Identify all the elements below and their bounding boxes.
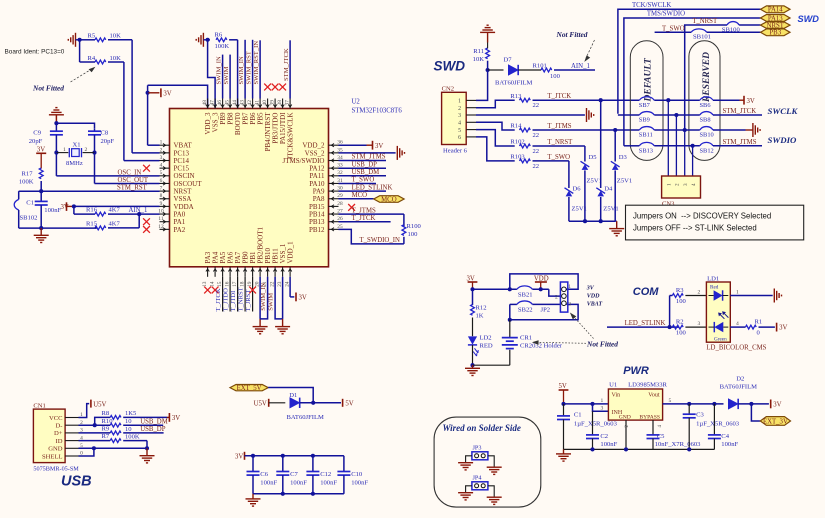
- svg-text:STM_RST: STM_RST: [117, 185, 148, 192]
- resistor R7: [102, 433, 140, 442]
- wire USB_DP (CN1): [123, 432, 163, 434]
- wire R8 to 3V: [123, 416, 169, 418]
- svg-text:7: 7: [160, 186, 163, 192]
- wire U1 Vout row: [663, 398, 724, 404]
- svg-text:JP4: JP4: [473, 475, 482, 482]
- wire SB6 to 3V: [713, 99, 744, 101]
- ground (left of R6): [196, 33, 207, 47]
- wire CN2 pin3 to ground: [476, 114, 585, 116]
- no-connect X pin13 PA3: [204, 287, 211, 294]
- ground (decoupling): [246, 494, 261, 506]
- zener D6 Z5V1: [565, 186, 587, 213]
- LED LD2 RED: [468, 335, 493, 356]
- wire CN3 pin4 drop: [692, 146, 694, 176]
- svg-text:2: 2: [85, 147, 88, 153]
- svg-text:TCK/SWCLK: TCK/SWCLK: [632, 2, 671, 9]
- svg-text:VCC: VCC: [49, 415, 63, 422]
- label AIN_1 (R101): [571, 63, 590, 70]
- wire T_JTMS (pin27) to R100: [339, 214, 404, 226]
- svg-text:2: 2: [675, 183, 681, 186]
- label SWIM_IN (pin46): [216, 56, 223, 84]
- resistor R1: [746, 319, 763, 337]
- svg-text:LD_BICOLOR_CMS: LD_BICOLOR_CMS: [706, 344, 766, 351]
- wire T_JRST (bottom): [252, 277, 254, 312]
- node R8 tap: [93, 423, 97, 427]
- pin 5 OSCIN (U2 left): [160, 170, 195, 180]
- svg-text:R17: R17: [22, 170, 34, 177]
- node AIN_1: [137, 212, 141, 216]
- node R11/D7/CN2 pin1: [486, 68, 490, 72]
- wire decoupling top row: [245, 454, 344, 458]
- pin 6 OSCOUT (U2 left): [160, 178, 203, 188]
- svg-text:4: 4: [458, 121, 461, 127]
- label STM_JTMS (row4): [723, 139, 757, 146]
- node C3 tap: [687, 402, 691, 406]
- svg-text:T_SWO: T_SWO: [547, 154, 570, 161]
- pin 2 D- (CN1): [56, 420, 84, 430]
- svg-text:38: 38: [277, 100, 283, 106]
- svg-text:Z5V1: Z5V1: [587, 177, 602, 184]
- pin 5 GND (CN1): [48, 443, 83, 453]
- wire row SB13 to SB12: [654, 145, 700, 147]
- wire battery bottom row: [473, 350, 510, 365]
- svg-text:44: 44: [232, 100, 238, 106]
- svg-text:100nF: 100nF: [721, 441, 738, 448]
- svg-text:100nF: 100nF: [290, 479, 307, 486]
- power 3V (VBAT): [146, 88, 172, 97]
- wire 3V rail down to R12: [472, 289, 474, 305]
- svg-text:22: 22: [533, 102, 540, 109]
- svg-text:8MHz: 8MHz: [66, 160, 83, 167]
- node zener gnd row 2: [599, 219, 603, 223]
- svg-text:Header 6: Header 6: [443, 148, 468, 155]
- capacitor C3: [683, 404, 740, 450]
- resistor R2: [672, 319, 686, 337]
- wire R2 to LD1 pin3: [685, 321, 706, 327]
- wire USB_DM (CN1): [123, 424, 163, 426]
- resistor R10: [102, 418, 133, 427]
- node 5V rail: [561, 402, 565, 406]
- port EXT_5V: [230, 385, 268, 393]
- svg-text:20pF: 20pF: [101, 138, 115, 145]
- wire T_SWO down to D6: [568, 161, 570, 188]
- pin 1 VCC (CN1): [49, 412, 83, 422]
- node CN3 tap 1: [666, 98, 670, 102]
- wire C3/C4 ground row: [653, 447, 714, 451]
- title SWD (right): [798, 14, 820, 24]
- capacitor C1 100nF: [26, 191, 61, 228]
- svg-text:SB101: SB101: [693, 33, 711, 40]
- svg-text:1: 1: [63, 147, 66, 153]
- wire MCO (pin29): [339, 198, 374, 200]
- resistor R14: [510, 123, 539, 139]
- pin 34 JTMS/SWDIO (U2 right): [282, 155, 343, 165]
- wire R8 jog: [95, 417, 111, 425]
- svg-text:5: 5: [160, 170, 163, 176]
- power 3V (R8): [169, 413, 180, 422]
- wire R1 to 3V: [759, 326, 775, 328]
- svg-text:R13: R13: [510, 93, 522, 100]
- ground above crystal: [49, 108, 64, 124]
- pin 19 PB1 (U2 bottom): [247, 251, 257, 287]
- wire battery loop to JP2 pin3: [510, 304, 578, 319]
- resistor R4: [88, 55, 122, 64]
- capacitor C7 100nF: [276, 456, 307, 494]
- wire SB101 to PB3 port: [707, 31, 761, 33]
- svg-text:DEFAULT: DEFAULT: [643, 57, 653, 102]
- wire CN3 pin3 drop: [684, 130, 686, 176]
- label JP2 VBAT: [587, 301, 603, 307]
- pin 3 PC14 (U2 left): [160, 155, 190, 165]
- svg-text:R5: R5: [88, 33, 96, 40]
- label TMS/SWDIO: [647, 10, 685, 17]
- svg-text:48: 48: [202, 100, 208, 106]
- no-connect X pin11 PA1: [143, 218, 150, 225]
- svg-text:PB3: PB3: [769, 30, 781, 37]
- svg-text:CN1: CN1: [33, 402, 45, 409]
- pin 27 PB14 (U2 right): [309, 208, 343, 218]
- pin 18 PB0 (U2 bottom): [239, 251, 249, 287]
- wire LED_STLINK (COM): [607, 326, 679, 328]
- svg-text:1µF_X5R_0603: 1µF_X5R_0603: [696, 421, 740, 428]
- svg-text:16: 16: [224, 281, 230, 287]
- wire SB22 to JP2 pin3: [532, 303, 561, 305]
- svg-text:3V: 3V: [172, 415, 180, 422]
- connector CN2 Header 6: [442, 86, 468, 155]
- node CN3 tap 3: [683, 128, 687, 132]
- svg-text:STM_JTCK: STM_JTCK: [283, 48, 290, 81]
- svg-text:U5V: U5V: [254, 400, 267, 407]
- wire VDD_1 (pin24) to 3V: [290, 277, 294, 297]
- pin 0 SHELL (CN1): [42, 451, 83, 461]
- svg-text:100nF: 100nF: [44, 207, 61, 214]
- pin 40 PB4/JNTRST (U2 top): [262, 99, 272, 152]
- resistor R11: [473, 43, 490, 64]
- svg-text:T_JTCK: T_JTCK: [215, 288, 222, 311]
- wire TCK/SWCLK to PA14: [618, 9, 761, 114]
- wire T_JTDI (bottom): [237, 277, 239, 312]
- svg-text:R102: R102: [510, 139, 524, 146]
- svg-text:R100: R100: [407, 223, 422, 230]
- wire 3V to VDDA pin9: [74, 205, 160, 207]
- node R3/R2 split: [668, 325, 672, 329]
- svg-text:SWIM_RST_IN: SWIM_RST_IN: [253, 41, 260, 85]
- node CN1 gnd: [145, 446, 149, 450]
- svg-text:1K: 1K: [476, 312, 484, 319]
- wire VDD_2 to 3V: [339, 144, 367, 146]
- svg-text:22: 22: [533, 148, 540, 155]
- title PWR: [623, 365, 649, 377]
- label TCK/SWCLK: [632, 2, 671, 9]
- svg-text:C4: C4: [721, 433, 729, 440]
- svg-text:PA14: PA14: [768, 7, 783, 14]
- svg-text:22: 22: [533, 132, 540, 139]
- svg-text:8: 8: [160, 193, 163, 199]
- capacitor C2: [586, 411, 618, 449]
- wire 3V to VDD_3 (pin48): [148, 85, 208, 108]
- wire T_SWO (pin31): [339, 183, 377, 185]
- ground above R11 (inverted): [480, 25, 495, 42]
- svg-text:USB_DP: USB_DP: [352, 161, 378, 168]
- svg-text:9: 9: [160, 201, 163, 207]
- node R5/R4 left junction: [78, 38, 82, 42]
- wire T_SWO row: [533, 160, 569, 162]
- wire SB12 to SWDIO: [713, 145, 762, 147]
- wire R11 to D7 row: [487, 61, 489, 70]
- title USB: [61, 474, 92, 490]
- label USB_DP (CN1): [140, 426, 166, 433]
- svg-text:D-: D-: [56, 423, 63, 430]
- svg-text:R14: R14: [510, 123, 522, 130]
- svg-text:U5V: U5V: [93, 401, 106, 408]
- pin 31 PA10 (U2 right): [309, 178, 343, 188]
- svg-text:JTCK&SWCLK: JTCK&SWCLK: [287, 113, 295, 160]
- svg-text:T_JTDI: T_JTDI: [230, 291, 237, 312]
- svg-text:R10: R10: [102, 418, 114, 425]
- ground (JP3 right): [487, 467, 502, 474]
- power 3V (PWR out): [771, 400, 782, 409]
- note box jumpers: [626, 205, 804, 240]
- port EXT_3V: [760, 417, 790, 426]
- port MCO: [374, 196, 404, 204]
- svg-text:U1: U1: [609, 382, 617, 389]
- svg-text:LD1: LD1: [707, 275, 719, 282]
- wire R3 to LD1 pin2: [685, 290, 706, 296]
- pin 4 (CN2): [458, 121, 476, 127]
- pin 29 PA8 (U2 right): [313, 193, 343, 203]
- pin 30 PA9 (U2 right): [313, 186, 343, 196]
- svg-text:C1: C1: [26, 200, 34, 207]
- svg-text:SWD: SWD: [798, 14, 820, 24]
- zener D5 Z5V1: [581, 154, 602, 184]
- wire zener ground row: [585, 220, 615, 222]
- wire OSC_OUT to pin6: [95, 153, 160, 184]
- power 3V (VDD_2): [367, 141, 384, 150]
- svg-text:T_SWO: T_SWO: [352, 177, 375, 184]
- wire U1 GND pin to ground row: [625, 420, 627, 449]
- svg-text:3: 3: [698, 321, 701, 327]
- wire CN2 pin4 to R14: [476, 122, 515, 130]
- svg-text:14: 14: [209, 281, 215, 287]
- svg-text:100: 100: [408, 231, 419, 238]
- svg-text:BAT60JFILM: BAT60JFILM: [287, 414, 325, 421]
- pin 1 (CN2): [458, 99, 476, 105]
- pin 47 VSS_3 (U2 top): [209, 99, 219, 133]
- resistor R102: [510, 139, 539, 155]
- svg-text:T_NRST: T_NRST: [238, 287, 245, 311]
- label T_SWDIO_IN: [360, 237, 400, 244]
- svg-text:6: 6: [160, 178, 163, 184]
- port PA14: [761, 6, 791, 14]
- diode D2 BAT60JFILM: [720, 376, 758, 409]
- ground (CN2 pin3): [587, 108, 594, 122]
- wire CN2 pin6 to R103: [476, 137, 515, 161]
- label OSC_IN: [118, 169, 142, 176]
- wire SWIM (pin21): [260, 277, 268, 319]
- text Not Fitted (R4): [32, 67, 95, 93]
- node battery top: [508, 318, 512, 322]
- svg-text:MCO: MCO: [352, 192, 368, 199]
- svg-text:Vin: Vin: [612, 393, 621, 399]
- pin 42 PB6 (U2 top): [247, 99, 257, 125]
- svg-text:USB: USB: [61, 474, 92, 490]
- wire R15 left to ground row: [95, 227, 97, 229]
- svg-text:100K: 100K: [19, 178, 34, 185]
- svg-text:4K7: 4K7: [109, 220, 121, 227]
- node EXT_3V tap: [749, 402, 753, 406]
- svg-text:T_JRST: T_JRST: [245, 290, 252, 312]
- svg-text:39: 39: [269, 100, 275, 106]
- svg-text:C10: C10: [351, 471, 363, 478]
- label T_SWO (row): [547, 154, 570, 161]
- pin 38 PA15/JTDI (U2 top): [277, 99, 287, 145]
- outline DEFAULT group: [630, 41, 663, 161]
- svg-text:100nF: 100nF: [260, 479, 277, 486]
- svg-text:R3: R3: [676, 287, 684, 294]
- svg-text:T_NRST: T_NRST: [547, 139, 573, 146]
- svg-text:GND: GND: [48, 446, 63, 453]
- svg-text:4: 4: [691, 183, 697, 186]
- wire D1 to 5V: [300, 402, 341, 404]
- svg-text:2: 2: [160, 147, 163, 153]
- power 3V (R17): [36, 146, 46, 168]
- svg-text:X1: X1: [73, 141, 81, 148]
- svg-text:BYPASS: BYPASS: [639, 414, 660, 420]
- svg-text:T_NRST: T_NRST: [692, 18, 718, 25]
- wire VSS_2 to ground: [339, 152, 396, 154]
- resistor R16: [86, 207, 121, 217]
- svg-text:C2: C2: [600, 433, 608, 440]
- pin 10 PA0 (U2 left): [158, 208, 186, 218]
- wire row SB7 to SB6: [654, 99, 700, 101]
- svg-text:3: 3: [683, 183, 689, 186]
- svg-text:AIN_1: AIN_1: [571, 63, 590, 70]
- wire SWIM_RST_IN (PB5 pin41): [259, 40, 261, 98]
- svg-text:SB102: SB102: [20, 215, 38, 222]
- svg-text:R16: R16: [86, 207, 98, 214]
- wire D7 anode: [488, 69, 504, 71]
- ground (VSS_1): [275, 327, 290, 334]
- port NRST: [761, 22, 791, 30]
- wire SB100 to NRST port: [739, 24, 760, 26]
- svg-text:R12: R12: [476, 304, 487, 311]
- svg-text:20pF: 20pF: [29, 138, 43, 145]
- svg-text:STM_JTCK: STM_JTCK: [723, 108, 757, 115]
- svg-text:28: 28: [337, 201, 343, 207]
- pin 12 PA2 (U2 left): [158, 224, 186, 234]
- resistor R13: [510, 93, 539, 109]
- svg-text:C6: C6: [260, 471, 268, 478]
- label MCO: [352, 192, 368, 199]
- wire OSC_IN to pin5: [56, 153, 159, 176]
- pin 32 PA11 (U2 right): [309, 170, 343, 180]
- svg-text:CR2032 Holder: CR2032 Holder: [520, 343, 563, 350]
- svg-text:1: 1: [458, 99, 461, 105]
- wire VSS_3 (pin47) to ground junction: [208, 40, 216, 109]
- svg-text:46: 46: [217, 100, 223, 106]
- node C1 / ground row: [39, 226, 43, 230]
- power 5V (D1): [343, 399, 354, 408]
- svg-text:100nF: 100nF: [351, 479, 368, 486]
- svg-text:LED_STLINK: LED_STLINK: [352, 184, 393, 191]
- power 3V (decoupling): [235, 452, 245, 461]
- text Not Fitted (JP2): [532, 313, 618, 349]
- svg-text:SB9: SB9: [639, 117, 650, 124]
- svg-text:Z5V1: Z5V1: [603, 206, 618, 213]
- pin 11 PA1 (U2 left): [158, 216, 185, 226]
- svg-text:3V: 3V: [299, 295, 307, 302]
- pin 13 PA3 (U2 bottom): [202, 251, 212, 287]
- svg-text:Vout: Vout: [648, 393, 660, 399]
- wire D+ row: [79, 432, 111, 434]
- svg-text:10: 10: [158, 208, 164, 214]
- svg-text:3V: 3V: [779, 325, 787, 332]
- svg-text:R7: R7: [102, 433, 110, 440]
- solder bridge SB13: [639, 142, 655, 154]
- svg-text:42: 42: [247, 100, 253, 106]
- crystal X1 8MHz: [56, 141, 94, 167]
- pin 26 PB13 (U2 right): [309, 216, 343, 226]
- pin 21 PB10 (U2 bottom): [262, 247, 272, 286]
- no-connect X pin4 PC15: [143, 165, 150, 172]
- zener D3 Z5V1: [611, 154, 632, 184]
- svg-text:47: 47: [209, 100, 215, 106]
- no-connect X pin14 PA4: [212, 287, 219, 294]
- wire PB11 (pin22) to ground: [275, 277, 283, 319]
- solder bridge SB102: [14, 199, 37, 221]
- svg-text:10K: 10K: [473, 56, 485, 63]
- svg-text:STM_JTMS: STM_JTMS: [723, 139, 757, 146]
- resistor R6: [208, 31, 230, 50]
- diode D1 BAT60JFILM: [287, 392, 325, 421]
- solder bridge SB22: [517, 301, 533, 314]
- wire TMS/SWDIO to PA13: [624, 18, 761, 146]
- node X1 pin2: [92, 151, 96, 155]
- pin 6 (CN2): [458, 135, 476, 141]
- wire CN2 pin1 up to D7 node: [476, 70, 488, 100]
- svg-text:12: 12: [158, 224, 164, 230]
- node CN3 tap 4: [691, 144, 695, 148]
- label JP2: [541, 307, 551, 314]
- svg-text:3: 3: [568, 302, 571, 308]
- svg-text:D7: D7: [504, 57, 513, 64]
- node 3V battery rail: [470, 287, 474, 291]
- pin 23 VSS_1 (U2 bottom): [277, 243, 287, 287]
- battery CR1 CR2032 Holder: [502, 320, 563, 350]
- svg-text:CR1: CR1: [520, 335, 532, 342]
- svg-text:10K: 10K: [110, 55, 122, 62]
- node SB21 left: [508, 287, 512, 291]
- label STM_JTMS: [352, 154, 386, 161]
- ground (C1/SB102): [34, 228, 49, 242]
- node LD2 ground: [470, 363, 474, 367]
- solder bridge SB21: [517, 286, 533, 299]
- power 3V (AIN divider): [61, 202, 74, 211]
- pin 24 VDD_1 (U2 bottom): [284, 241, 294, 287]
- label T_JTCK (bottom): [215, 288, 222, 311]
- wire SB102 top lead: [18, 191, 20, 199]
- power U5V (D1): [254, 399, 269, 408]
- svg-text:SWIM_IN: SWIM_IN: [216, 56, 223, 84]
- svg-text:Not Fitted: Not Fitted: [586, 340, 618, 349]
- capacitor C8: [88, 129, 114, 153]
- power 3V (battery section): [467, 275, 478, 289]
- wire LD1 pin1 to ground: [730, 290, 772, 296]
- label STM_JTCK (row2): [723, 108, 757, 115]
- port PB3: [761, 29, 791, 37]
- svg-text:VDD: VDD: [587, 293, 600, 299]
- wire R17 to STM_RST row: [40, 181, 42, 191]
